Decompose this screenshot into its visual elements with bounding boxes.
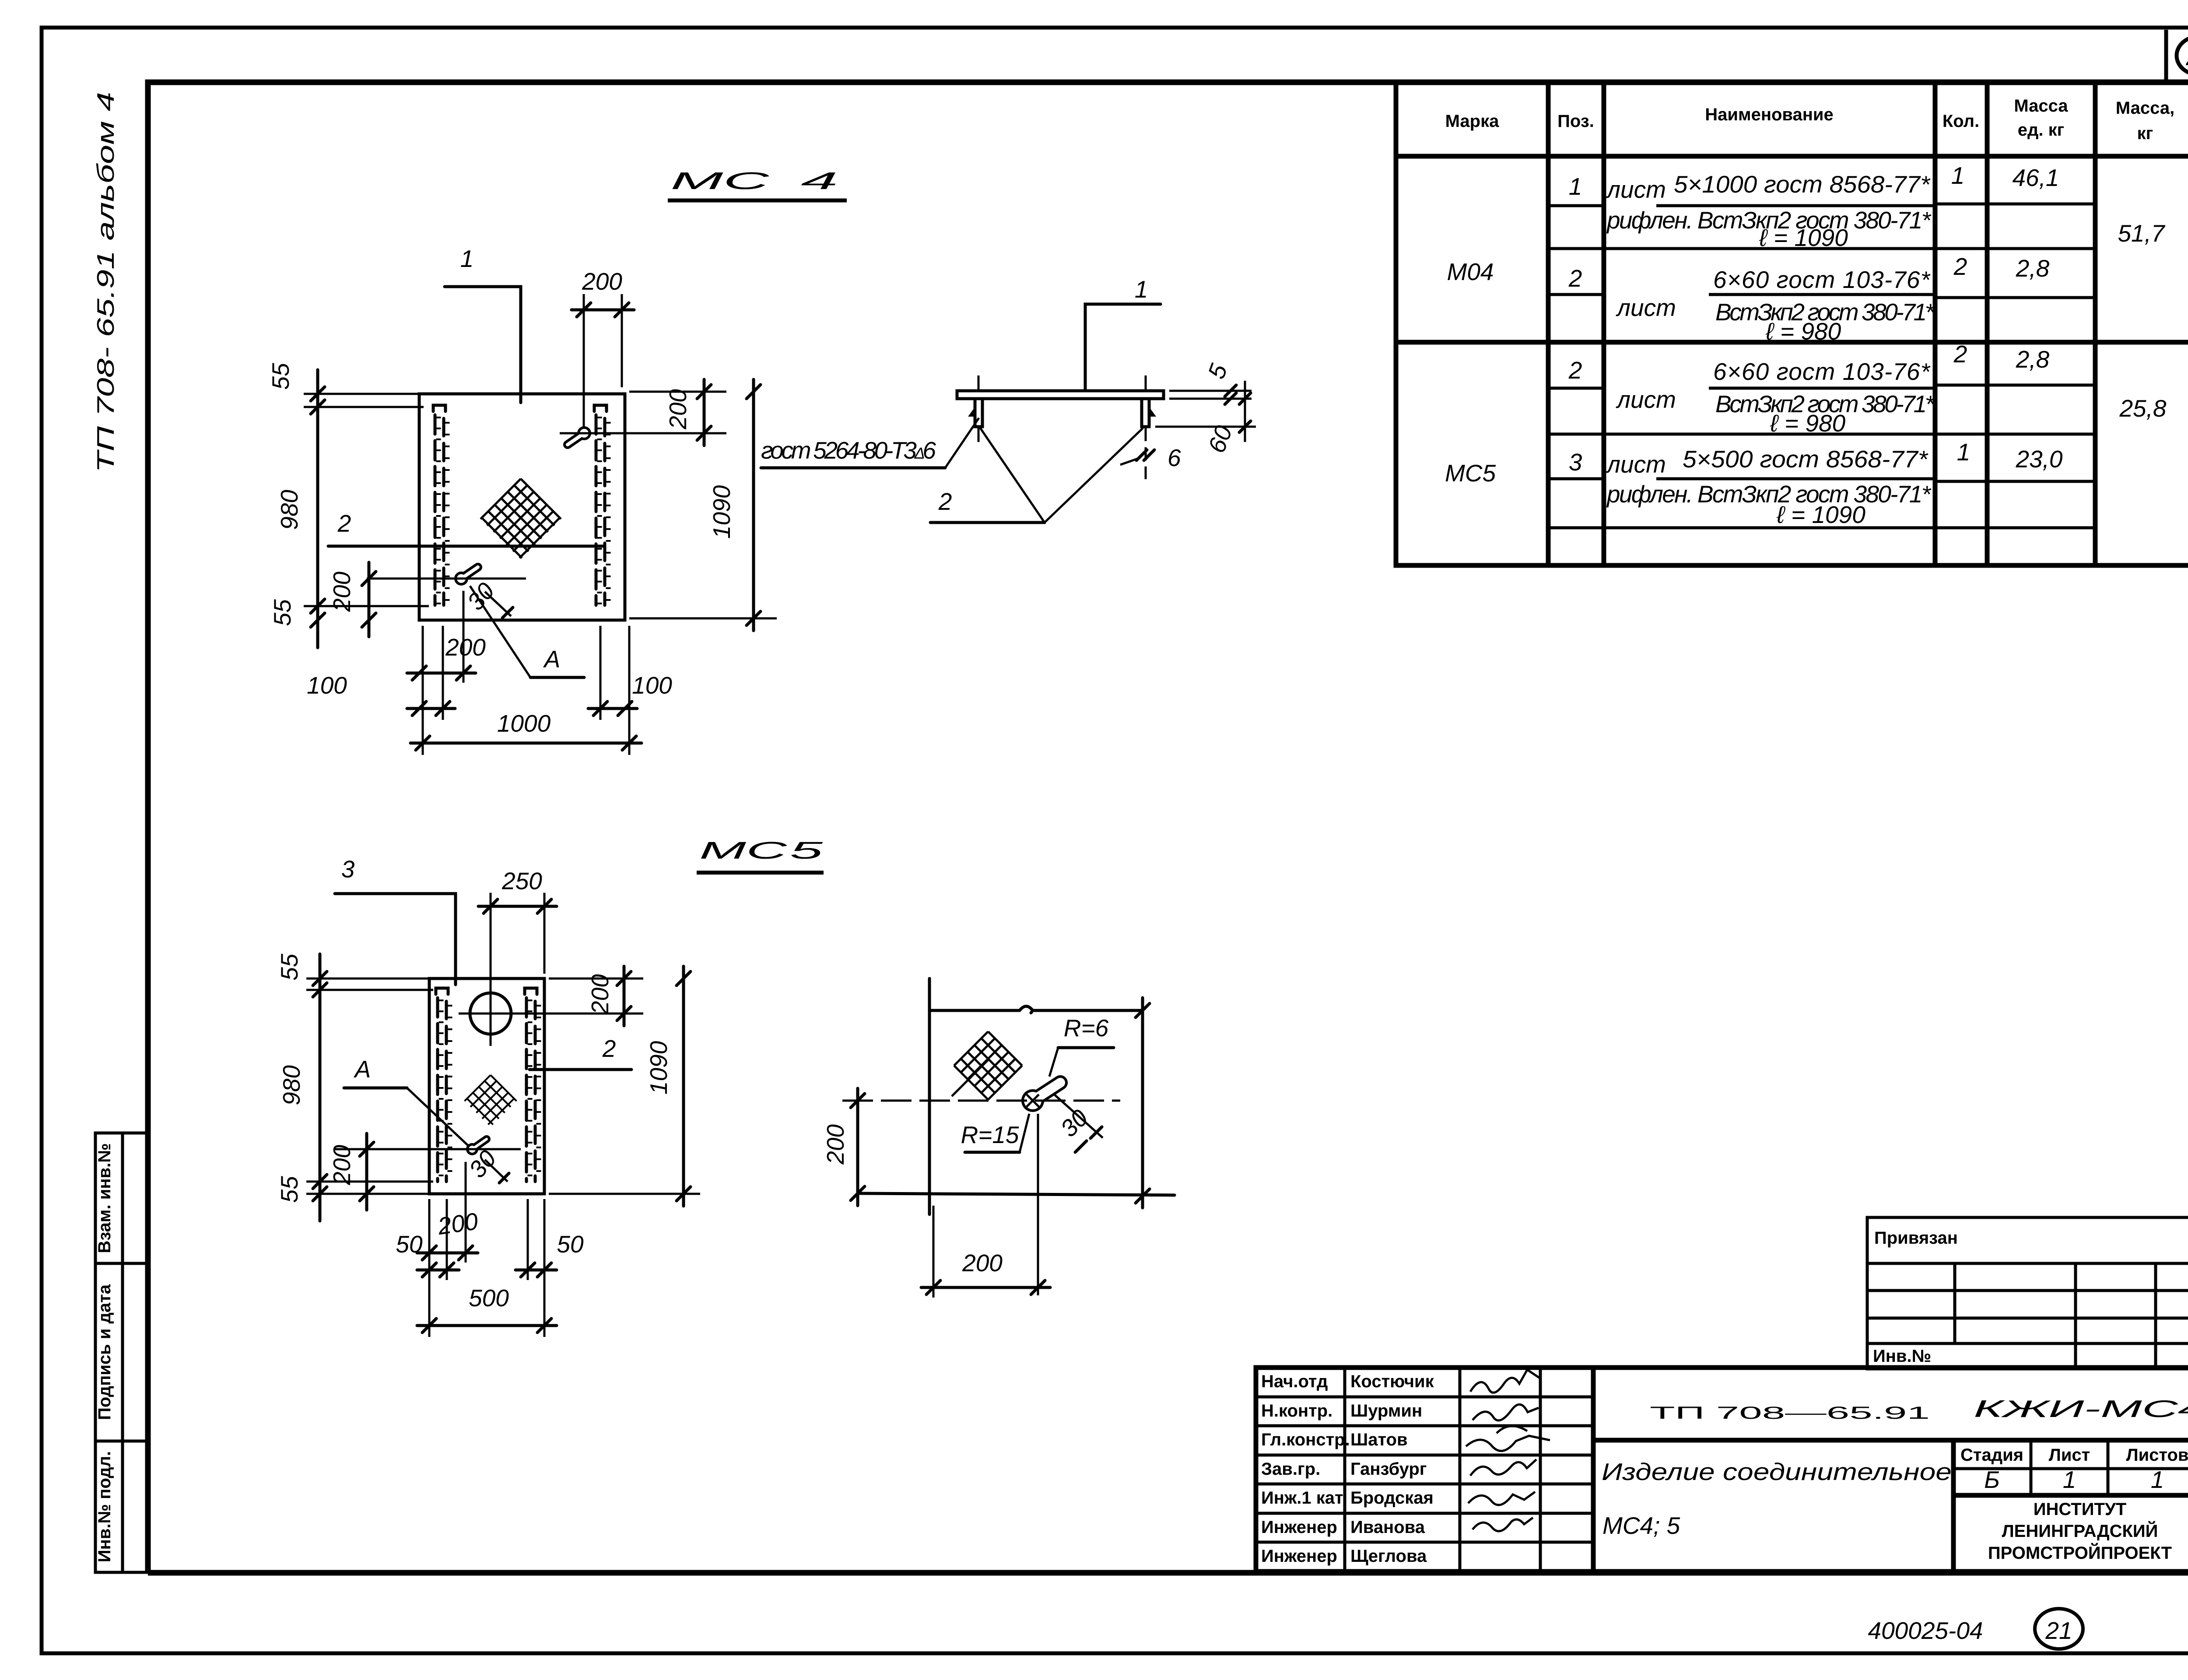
side box Vzam inv xyxy=(95,1133,148,1263)
svg-text:3: 3 xyxy=(1569,449,1582,476)
svg-text:Ганзбург: Ганзбург xyxy=(1350,1459,1427,1479)
svg-text:55: 55 xyxy=(276,1176,303,1203)
MC5 keyhole anchor xyxy=(466,1139,487,1155)
svg-text:Н.контр.: Н.контр. xyxy=(1261,1401,1332,1420)
svg-text:200: 200 xyxy=(436,1207,480,1240)
svg-text:Подпись и дата: Подпись и дата xyxy=(95,1284,114,1420)
detail A right edge xyxy=(1141,998,1144,1208)
svg-text:21: 21 xyxy=(2045,1617,2072,1644)
detail A top edge xyxy=(929,1007,1143,1013)
svg-text:55: 55 xyxy=(276,954,303,981)
svg-text:Гл.констр.: Гл.констр. xyxy=(1261,1430,1350,1449)
svg-text:лист: лист xyxy=(1616,386,1676,413)
svg-text:ПРОМСТРОЙПРОЕКТ: ПРОМСТРОЙПРОЕКТ xyxy=(1988,1543,2172,1563)
svg-text:50: 50 xyxy=(396,1231,423,1258)
svg-text:1: 1 xyxy=(2151,1466,2164,1493)
detail A slot axis 30 deg xyxy=(1054,1094,1103,1138)
svg-text:1: 1 xyxy=(2063,1466,2076,1493)
MC5 weld seam right xyxy=(525,988,539,1182)
svg-text:Шурмин: Шурмин xyxy=(1350,1401,1422,1420)
svg-text:М04: М04 xyxy=(1447,258,1494,285)
svg-text:2: 2 xyxy=(1568,265,1582,292)
svg-text:1: 1 xyxy=(1951,162,1965,189)
MC5 hatch patch xyxy=(465,1075,517,1127)
svg-text:23,0: 23,0 xyxy=(2015,445,2062,473)
svg-text:Масса: Масса xyxy=(2014,96,2068,116)
svg-text:2: 2 xyxy=(1953,340,1967,368)
svg-text:Костючик: Костючик xyxy=(1350,1372,1434,1391)
svg-text:R=6: R=6 xyxy=(1064,1014,1109,1042)
svg-text:5: 5 xyxy=(790,837,823,864)
side box Podpis i data xyxy=(95,1263,148,1441)
svg-text:ℓ = 1090: ℓ = 1090 xyxy=(1759,224,1848,251)
parts table outer xyxy=(1396,82,2188,565)
svg-text:лист: лист xyxy=(1616,294,1676,321)
svg-text:рифлен. ВстЗкп2 гост 380-71*: рифлен. ВстЗкп2 гост 380-71* xyxy=(1606,481,1932,508)
detail A hatch xyxy=(954,1031,1022,1100)
svg-text:100: 100 xyxy=(632,672,672,699)
parts table columns xyxy=(1546,82,1551,565)
weld fillet marks xyxy=(968,407,975,417)
svg-text:Инв.№ подл.: Инв.№ подл. xyxy=(95,1451,114,1562)
MC4 keyhole anchor bottom xyxy=(454,567,478,586)
MC4 side view plate bar xyxy=(957,391,1164,399)
svg-text:200: 200 xyxy=(586,974,614,1015)
privyazan box xyxy=(1867,1217,2188,1369)
svg-text:ТП 708- 65.91 альбом 4: ТП 708- 65.91 альбом 4 xyxy=(92,92,119,473)
MC5 weld seam left xyxy=(436,988,450,1182)
svg-text:2: 2 xyxy=(602,1035,616,1062)
svg-text:Инв.№: Инв.№ xyxy=(1873,1347,1931,1366)
svg-text:1090: 1090 xyxy=(645,1041,672,1094)
svg-text:2,8: 2,8 xyxy=(2016,255,2050,282)
svg-text:5×1000 гост 8568-77*: 5×1000 гост 8568-77* xyxy=(1674,171,1931,198)
svg-text:1000: 1000 xyxy=(497,710,551,737)
svg-text:3: 3 xyxy=(341,856,355,883)
detail A plate edge left xyxy=(928,979,931,1214)
svg-text:2: 2 xyxy=(938,488,952,515)
svg-text:Марка: Марка xyxy=(1445,112,1500,131)
section divider MC4/MC5 xyxy=(1396,340,2188,345)
svg-text:гост 5264-80-Т3Δ6: гост 5264-80-Т3Δ6 xyxy=(761,437,936,464)
detail A vertical ref below keyhole xyxy=(1037,1114,1039,1295)
MC5 plate outline xyxy=(429,979,544,1194)
svg-text:Щеглова: Щеглова xyxy=(1350,1547,1427,1566)
svg-text:лист: лист xyxy=(1606,451,1666,478)
MC4 keyhole anchor top xyxy=(568,426,591,445)
svg-text:6×60 гост 103-76*: 6×60 гост 103-76* xyxy=(1713,358,1931,385)
svg-text:МС: МС xyxy=(670,167,770,194)
svg-text:46,1: 46,1 xyxy=(2012,164,2059,191)
detail A keyhole xyxy=(1021,1083,1060,1112)
svg-text:100: 100 xyxy=(307,672,347,699)
svg-text:400025-04: 400025-04 xyxy=(1868,1617,1983,1644)
signatures scribbles xyxy=(1470,1370,1540,1392)
svg-text:Б: Б xyxy=(1984,1466,2000,1493)
svg-text:МС4; 5: МС4; 5 xyxy=(1602,1512,1680,1539)
svg-text:200: 200 xyxy=(445,634,486,661)
svg-text:Кол.: Кол. xyxy=(1943,112,1979,131)
MC4 side view left leg xyxy=(975,399,982,427)
svg-text:200: 200 xyxy=(582,268,622,295)
svg-text:Инж.1 кат: Инж.1 кат xyxy=(1261,1488,1343,1508)
svg-text:50: 50 xyxy=(557,1231,584,1258)
svg-text:6×60 гост 103-76*: 6×60 гост 103-76* xyxy=(1713,266,1931,293)
title block outer xyxy=(1256,1368,2188,1571)
table header row xyxy=(1396,154,2188,159)
svg-text:1: 1 xyxy=(460,245,474,272)
svg-text:Зав.гр.: Зав.гр. xyxy=(1261,1459,1320,1479)
svg-text:51,7: 51,7 xyxy=(2118,220,2165,247)
svg-text:500: 500 xyxy=(469,1284,509,1312)
svg-text:2: 2 xyxy=(1568,357,1582,384)
svg-text:МС5: МС5 xyxy=(1445,459,1496,487)
svg-text:Наименование: Наименование xyxy=(1705,105,1833,124)
svg-text:200: 200 xyxy=(328,572,355,612)
sheet number box 20 xyxy=(2166,30,2188,82)
svg-text:Привязан: Привязан xyxy=(1874,1228,1958,1248)
svg-text:Взам. инв.№: Взам. инв.№ xyxy=(95,1143,114,1253)
svg-text:ℓ = 980: ℓ = 980 xyxy=(1770,410,1846,437)
svg-text:Лист: Лист xyxy=(2049,1445,2090,1465)
svg-text:200: 200 xyxy=(822,1124,849,1165)
svg-text:2,8: 2,8 xyxy=(2016,346,2050,373)
svg-text:1090: 1090 xyxy=(708,485,735,539)
svg-text:Нач.отд: Нач.отд xyxy=(1261,1372,1328,1391)
svg-text:980: 980 xyxy=(278,1065,305,1105)
detail A centerline xyxy=(842,1100,1120,1102)
svg-text:А: А xyxy=(543,645,561,673)
detail A bottom edge xyxy=(859,1193,1175,1195)
svg-text:кг: кг xyxy=(2137,124,2153,143)
MC4 plate outline xyxy=(419,394,625,620)
svg-text:ℓ = 980: ℓ = 980 xyxy=(1765,318,1841,345)
MC4 weld seam right xyxy=(594,405,608,605)
table internal lines poz/nom xyxy=(1548,204,1604,207)
svg-text:5×500 гост 8568-77*: 5×500 гост 8568-77* xyxy=(1683,445,1929,473)
svg-text:200: 200 xyxy=(328,1145,355,1185)
svg-text:Изделие соединительное: Изделие соединительное xyxy=(1602,1458,1952,1485)
svg-text:1: 1 xyxy=(1135,276,1148,303)
svg-text:ИНСТИТУТ: ИНСТИТУТ xyxy=(2034,1500,2126,1519)
svg-text:20: 20 xyxy=(2185,43,2188,70)
title block signature columns xyxy=(1343,1368,1346,1571)
svg-text:250: 250 xyxy=(501,867,542,894)
title block doc number xyxy=(1593,1438,2188,1443)
side box Inv N podl xyxy=(95,1441,148,1572)
svg-text:980: 980 xyxy=(276,490,303,530)
MC4 weld seam left xyxy=(433,405,447,605)
MC4 hatch patch xyxy=(480,479,561,559)
svg-text:Инженер: Инженер xyxy=(1261,1547,1337,1566)
svg-text:Инженер: Инженер xyxy=(1261,1518,1337,1537)
svg-text:R=15: R=15 xyxy=(961,1121,1019,1148)
svg-text:лист: лист xyxy=(1606,176,1666,203)
svg-text:Иванова: Иванова xyxy=(1350,1518,1425,1537)
svg-text:ЛЕНИНГРАДСКИЙ: ЛЕНИНГРАДСКИЙ xyxy=(2002,1521,2158,1541)
svg-text:Шатов: Шатов xyxy=(1350,1430,1408,1449)
svg-text:55: 55 xyxy=(267,363,294,390)
svg-text:КЖИ-МС4: КЖИ-МС4 xyxy=(1974,1395,2188,1422)
stadia list listov xyxy=(1951,1440,1956,1571)
svg-text:ТП 708—65.91: ТП 708—65.91 xyxy=(1650,1403,1930,1423)
svg-text:2: 2 xyxy=(337,510,351,537)
svg-text:6: 6 xyxy=(1168,444,1181,471)
svg-text:4: 4 xyxy=(801,167,838,194)
svg-text:Поз.: Поз. xyxy=(1557,112,1594,131)
svg-text:ℓ = 1090: ℓ = 1090 xyxy=(1776,501,1865,528)
MC5 hole xyxy=(470,993,511,1034)
svg-text:ед. кг: ед. кг xyxy=(2018,120,2065,140)
svg-text:55: 55 xyxy=(269,599,296,626)
svg-text:200: 200 xyxy=(664,389,691,430)
svg-text:2: 2 xyxy=(1953,253,1967,280)
svg-text:200: 200 xyxy=(962,1249,1003,1277)
svg-text:А: А xyxy=(354,1056,371,1083)
svg-text:25,8: 25,8 xyxy=(2119,395,2166,422)
svg-text:МС: МС xyxy=(699,837,788,864)
svg-text:Листов: Листов xyxy=(2126,1445,2188,1465)
svg-text:Стадия: Стадия xyxy=(1960,1445,2023,1465)
svg-text:1: 1 xyxy=(1957,438,1971,466)
svg-text:1: 1 xyxy=(1569,173,1582,200)
MC4 side view right leg xyxy=(1142,399,1149,427)
svg-text:Масса,: Масса, xyxy=(2116,98,2174,118)
svg-text:Бродская: Бродская xyxy=(1350,1488,1434,1508)
